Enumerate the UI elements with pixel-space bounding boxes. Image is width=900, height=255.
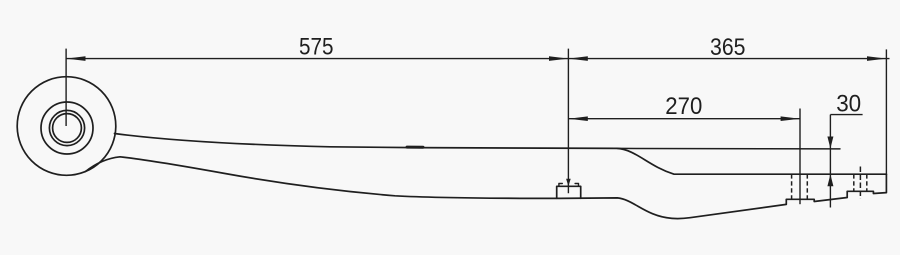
hidden hole line left (seat pad 1) (791, 174, 793, 199)
extension line at right spring end (885, 49, 887, 174)
arrowhead 575 right (549, 56, 568, 61)
leader shelf of 30 (830, 114, 862, 116)
hidden hole line left (seat pad 2) (853, 174, 855, 191)
svg-text:30: 30 (836, 91, 861, 118)
bushing outer ring (49, 110, 84, 145)
arrowhead 365 right (867, 56, 886, 61)
svg-text:575: 575 (299, 34, 334, 61)
arrowhead at center bolt (down) (566, 179, 571, 187)
short thick mark on blade top line (407, 146, 423, 149)
center bolt left ear mark (559, 184, 562, 187)
hidden hole line right (seat pad 1) (806, 174, 808, 199)
pad 2 hole centerline (859, 167, 861, 199)
arrowhead 30 top (down) (827, 137, 833, 149)
dimension line 575/365 (66, 58, 889, 60)
arrowhead 270 right (781, 116, 800, 121)
arrowhead 575 left (66, 56, 85, 61)
extension line of 270 at pad 1 hole center (799, 109, 801, 205)
blade bottom outline with end taper, seat pads and right end face (86, 157, 887, 219)
svg-text:270: 270 (665, 93, 702, 120)
center bolt head on seat (557, 186, 581, 198)
bushing inner ring (53, 114, 82, 143)
straight reference line (blade top extended over dropped end) (617, 147, 840, 150)
hidden hole line right (seat pad 2) (866, 174, 868, 191)
extension line at eye center (65, 49, 67, 126)
svg-text:365: 365 (710, 34, 746, 61)
spring eye inner hole circle (41, 102, 93, 154)
arrowhead 270 left (568, 116, 587, 121)
arrowhead 30 bottom (up) (827, 174, 833, 186)
extension line at spring center seat (567, 49, 569, 194)
arrowhead 365 left (568, 56, 587, 61)
spring eye outer wrap circle (17, 77, 116, 176)
dimension line 270 (568, 118, 800, 120)
blade top outline (115, 134, 887, 175)
leader vertical of 30 (829, 115, 831, 208)
center bolt right ear mark (575, 184, 578, 187)
